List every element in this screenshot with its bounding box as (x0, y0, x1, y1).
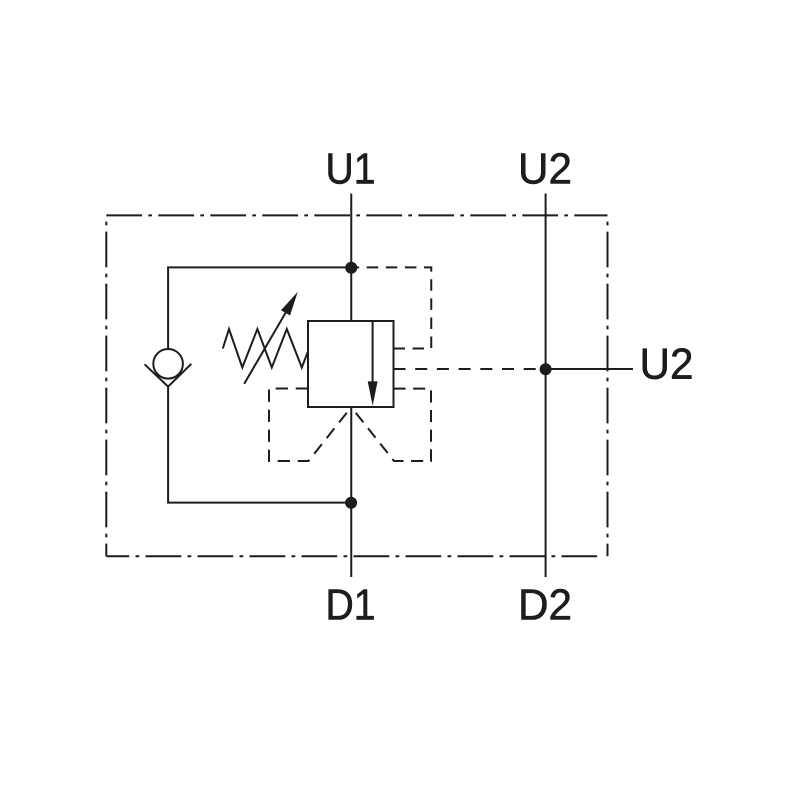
node D1 junction (345, 497, 357, 509)
wire U2-D2 vertical (545, 194, 547, 578)
valve body V1 (308, 321, 394, 407)
pilot line from U1 node to valve pilot port (dashed) (352, 267, 431, 348)
check valve CV1 ball (153, 349, 183, 379)
node U1 junction (345, 262, 357, 274)
vent path right (dashed) (351, 389, 431, 461)
label U2 top (521, 153, 570, 184)
node U2 junction (540, 363, 552, 375)
wire U2 right stub (546, 368, 633, 370)
wire check-valve branch top (168, 267, 351, 348)
check valve CV1 seat (145, 364, 192, 387)
vent path left (dashed) (269, 389, 351, 462)
label U2 right (643, 348, 692, 379)
label U1 (329, 154, 374, 184)
pilot line from valve to U2 node (dashed) (394, 368, 541, 370)
enclosure boundary (dash-dot cartridge envelope) (106, 215, 607, 556)
wire D1 vertical lower (350, 407, 352, 577)
adjustment arrow (244, 292, 298, 384)
wire check-valve branch bottom (168, 387, 351, 503)
spring (adjustable) (223, 329, 308, 368)
label D1 (329, 590, 374, 620)
label D2 (522, 589, 570, 619)
valve flow arrow (368, 321, 378, 406)
wire U1 vertical upper (350, 194, 352, 322)
